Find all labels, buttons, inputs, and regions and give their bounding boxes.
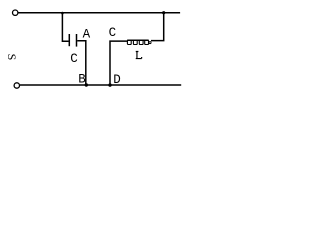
svg-text:A: A [83,27,91,41]
svg-text:S: S [5,54,19,61]
svg-text:C: C [70,52,78,66]
svg-text:B: B [78,73,86,87]
svg-text:D: D [113,73,121,87]
svg-text:C: C [109,26,117,40]
